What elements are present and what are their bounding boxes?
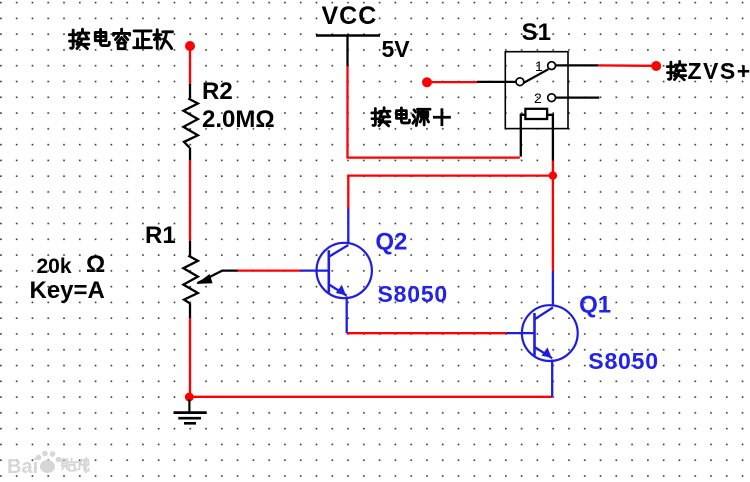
transistor Q1 collector diagonal xyxy=(535,308,553,320)
potentiometer R1 body xyxy=(183,255,198,303)
svg-text:2: 2 xyxy=(534,90,542,106)
label Chinese: jie (connect) of ZVS+ xyxy=(667,61,685,79)
wire red R2 bottom to R1 top xyxy=(189,160,191,241)
wire red coil right down to junction and Q1 collector xyxy=(552,161,554,271)
svg-text:S8050: S8050 xyxy=(588,348,659,374)
power rail VCC symbol xyxy=(316,34,380,36)
wire black switch pin1 to ZVS lead xyxy=(556,64,599,66)
wire red wiper to Q2 base xyxy=(238,269,301,271)
switch S1 pin1 contact circle xyxy=(548,62,556,70)
wire black switch pin2 stub xyxy=(556,96,600,98)
wire black wiper arm xyxy=(198,271,238,284)
wire blue Q2 emitter lead down to red row xyxy=(346,297,348,334)
wire black relay coil right lead xyxy=(547,115,553,161)
wire red to ZVS terminal dot xyxy=(598,64,652,67)
transistor Q2 base bar xyxy=(327,250,330,292)
svg-text:VCC: VCC xyxy=(322,2,378,30)
svg-text:Bai: Bai xyxy=(7,456,38,478)
svg-text:S1: S1 xyxy=(522,19,551,46)
transistor Q1 base lead xyxy=(506,332,535,334)
transistor Q2 collector diagonal xyxy=(329,245,349,257)
svg-text:ZVS+: ZVS+ xyxy=(688,58,750,84)
node junction dot red at coil/collector row xyxy=(549,171,557,179)
svg-text:R1: R1 xyxy=(145,222,176,249)
label Chinese: jie dian yuan + (connect power supply +) xyxy=(372,108,450,126)
watermark Baidu Tieba xyxy=(7,451,89,478)
transistor Q2 circle xyxy=(317,243,372,298)
wire blue Q2 collector lead xyxy=(347,209,349,245)
switch S1 coil box xyxy=(525,109,547,119)
svg-text:S8050: S8050 xyxy=(378,281,449,307)
ground symbol xyxy=(174,400,207,424)
wire red Q2 emitter row to Q1 base xyxy=(347,332,506,334)
wire blue Q1 collector lead xyxy=(552,271,554,307)
switch S1 arm xyxy=(523,69,548,83)
switch S1 box xyxy=(505,52,568,129)
svg-text:Ω: Ω xyxy=(86,251,105,278)
wire black into switch common xyxy=(477,81,516,83)
svg-text:2.0MΩ: 2.0MΩ xyxy=(202,106,275,133)
node terminal dot red power+ xyxy=(422,77,432,87)
svg-text:Q2: Q2 xyxy=(375,228,407,255)
node terminal dot red capacitor positive xyxy=(185,41,195,51)
transistor Q2 emitter diagonal xyxy=(329,284,347,295)
svg-text:R2: R2 xyxy=(202,78,233,105)
transistor Q2 base lead xyxy=(301,269,329,271)
svg-text:1: 1 xyxy=(535,58,543,74)
svg-text:Q1: Q1 xyxy=(579,291,611,318)
wire black relay coil left lead xyxy=(521,115,526,157)
wire R2 bottom pin stub black xyxy=(189,147,191,160)
wire red bottom ground rail to Q1 emitter xyxy=(189,396,552,398)
svg-text:5V: 5V xyxy=(382,36,411,62)
wire red VCC down and right to relay coil left xyxy=(348,66,520,157)
wire R2 top pin stub black xyxy=(189,84,191,98)
potentiometer R1 wiper arrowhead xyxy=(196,274,212,284)
node terminal dot red ZVS+ xyxy=(651,61,661,71)
svg-text:20k: 20k xyxy=(37,255,72,278)
resistor R2 xyxy=(183,98,198,147)
label Chinese: jie dian rong zheng ji (connect capacitor positive) xyxy=(69,29,172,49)
switch S1 common contact circle xyxy=(516,78,524,86)
wire VCC stub black xyxy=(346,36,348,67)
wire red R1 bottom to ground junction xyxy=(189,318,191,397)
wire R1 top pin stub black xyxy=(189,241,191,256)
node junction dot red at ground xyxy=(185,393,194,402)
transistor Q1 base bar xyxy=(533,313,536,356)
wire red junction row to Q2 collector xyxy=(348,176,553,209)
transistor Q1 emitter diagonal xyxy=(535,347,553,358)
wire red from capacitor terminal dot down to R2 top xyxy=(189,48,191,84)
transistor Q1 emitter arrow xyxy=(542,347,552,358)
transistor Q1 circle xyxy=(522,305,578,361)
wire red power+ terminal to switch common xyxy=(431,81,477,83)
wire R1 bottom pin stub black xyxy=(189,303,191,318)
wire blue Q1 emitter lead down to ground rail xyxy=(551,360,553,397)
transistor Q2 emitter arrow xyxy=(336,285,346,296)
switch S1 pin2 contact circle xyxy=(548,94,556,102)
svg-text:Key=A: Key=A xyxy=(30,277,105,304)
